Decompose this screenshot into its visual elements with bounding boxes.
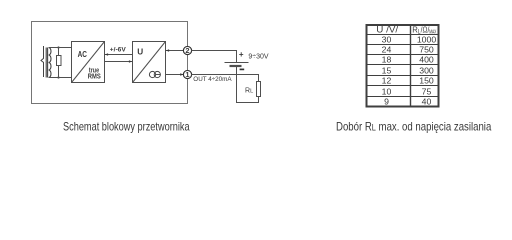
- svg-text:400: 400: [419, 54, 434, 64]
- svg-text:Schemat blokowy przetwornika: Schemat blokowy przetwornika: [63, 120, 190, 134]
- wire resistor bottom lead: [58, 66, 60, 78]
- svg-text:15: 15: [382, 65, 392, 75]
- symbol isolation circles in U block: [149, 71, 155, 77]
- table column RL values: [417, 34, 436, 106]
- resistor burden (shunt): [57, 56, 62, 66]
- svg-text:+: +: [239, 50, 244, 59]
- transformer secondary winding: [49, 48, 51, 78]
- svg-text:RMS: RMS: [88, 74, 101, 81]
- svg-text:U: U: [137, 47, 143, 56]
- node resistor bottom junction: [57, 76, 59, 78]
- wire terminal 2 to battery: [191, 51, 236, 63]
- svg-text:30: 30: [382, 34, 392, 44]
- svg-text:AC: AC: [78, 50, 87, 59]
- terminal 1: [183, 70, 191, 78]
- wire secondary top: [49, 47, 72, 49]
- svg-text:1: 1: [185, 70, 189, 79]
- svg-text:U /V/: U /V/: [376, 25, 398, 35]
- transformer core: [45, 48, 47, 78]
- svg-text:750: 750: [419, 44, 434, 54]
- battery negative plate: [230, 65, 242, 67]
- svg-text:Dobór RL max. od napięcia zasi: Dobór RL max. od napięcia zasilania: [336, 120, 492, 134]
- svg-text:2: 2: [185, 46, 189, 55]
- svg-text:12: 12: [382, 75, 392, 85]
- svg-text:150: 150: [419, 75, 434, 85]
- svg-text:OUT 4÷20mA: OUT 4÷20mA: [193, 76, 232, 83]
- wire signal line AC to U: [105, 61, 133, 63]
- svg-text:18: 18: [382, 54, 392, 64]
- block U converter: [133, 42, 166, 83]
- wire +/-6V supply line: [105, 54, 133, 56]
- svg-text:1000: 1000: [417, 34, 436, 44]
- wire U block to terminal 1: [166, 74, 184, 76]
- transformer TR primary conductor: [41, 46, 44, 77]
- wire terminal 1 OUT to RL top: [191, 75, 258, 82]
- label battery minus: [240, 68, 245, 70]
- battery positive plate: [225, 62, 249, 64]
- wire resistor top lead: [58, 48, 60, 56]
- svg-text:10: 10: [382, 86, 392, 96]
- svg-text:+/-6V: +/-6V: [110, 47, 127, 54]
- block AC true RMS: [72, 42, 105, 83]
- svg-text:75: 75: [422, 86, 432, 96]
- wire battery minus down to RL bottom: [237, 67, 259, 103]
- resistor RL: [257, 82, 261, 97]
- svg-text:RL: RL: [245, 88, 253, 95]
- svg-text:300: 300: [419, 65, 434, 75]
- table Dobor RL: [367, 25, 439, 107]
- svg-text:40: 40: [422, 96, 432, 106]
- svg-text:9÷30V: 9÷30V: [248, 53, 269, 60]
- wire secondary bottom: [49, 77, 72, 79]
- node resistor top junction: [57, 46, 59, 48]
- enclosure box: [32, 22, 188, 104]
- terminal 2: [183, 46, 191, 54]
- wire U block to terminal 2: [166, 50, 184, 52]
- svg-text:9: 9: [384, 96, 389, 106]
- table column U values: [382, 34, 392, 106]
- svg-text:24: 24: [382, 44, 392, 54]
